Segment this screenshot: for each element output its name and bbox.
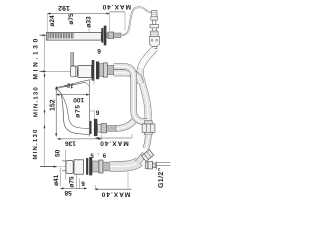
- svg-text:G1/2”: G1/2”: [157, 167, 165, 188]
- svg-text:MIN.130: MIN.130: [33, 36, 40, 79]
- svg-text:MIN.130: MIN.130: [32, 128, 39, 159]
- svg-text:ø33: ø33: [86, 16, 93, 28]
- svg-text:192: 192: [58, 4, 70, 11]
- svg-text:MAX.40: MAX.40: [101, 191, 130, 198]
- svg-text:9: 9: [97, 49, 101, 56]
- svg-text:9.5: 9.5: [87, 152, 106, 159]
- svg-text:MAX.40: MAX.40: [99, 139, 128, 146]
- svg-text:ø75: ø75: [68, 13, 75, 25]
- svg-text:50: 50: [55, 149, 62, 157]
- svg-text:ø75: ø75: [75, 104, 82, 118]
- svg-text:58: 58: [64, 189, 72, 196]
- svg-text:9: 9: [96, 110, 100, 117]
- svg-text:MAX.40: MAX.40: [102, 3, 131, 10]
- svg-text:MIN.130: MIN.130: [32, 86, 39, 117]
- svg-text:9: 9: [81, 181, 85, 188]
- svg-text:ø24: ø24: [49, 15, 56, 27]
- svg-text:152: 152: [50, 99, 57, 111]
- svg-text:136: 136: [65, 139, 76, 146]
- svg-text:ø41: ø41: [53, 174, 60, 186]
- svg-text:ø75: ø75: [68, 176, 75, 188]
- svg-text:100: 100: [73, 96, 84, 103]
